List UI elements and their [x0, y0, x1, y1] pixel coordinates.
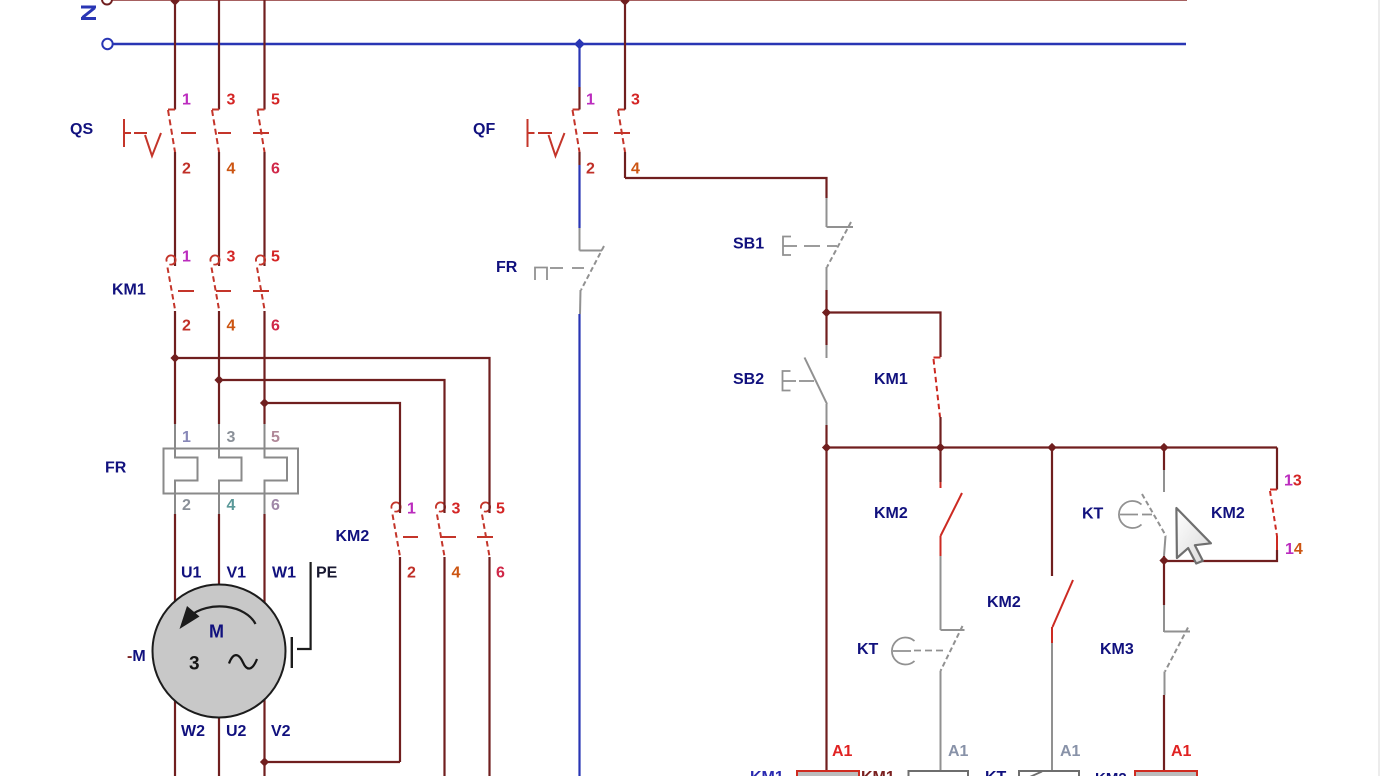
svg-text:3: 3	[631, 92, 640, 109]
svg-text:5: 5	[271, 92, 280, 109]
svg-text:3: 3	[452, 501, 461, 518]
svg-text:4: 4	[452, 565, 461, 582]
svg-text:A1: A1	[1060, 743, 1081, 760]
svg-text:14: 14	[1285, 541, 1303, 558]
svg-text:W2: W2	[181, 723, 205, 740]
svg-text:1: 1	[182, 429, 191, 446]
svg-text:KM1: KM1	[874, 371, 908, 388]
svg-text:SB1: SB1	[733, 236, 764, 253]
svg-text:KM1: KM1	[750, 769, 784, 776]
svg-text:KM2: KM2	[874, 505, 908, 522]
svg-text:3: 3	[227, 92, 236, 109]
svg-text:KM3: KM3	[1100, 641, 1134, 658]
svg-text:-M: -M	[127, 648, 146, 665]
svg-text:2: 2	[182, 497, 191, 514]
svg-text:6: 6	[271, 318, 280, 335]
svg-text:V1: V1	[227, 565, 247, 582]
svg-text:2: 2	[182, 318, 191, 335]
svg-text:KM1: KM1	[112, 282, 146, 299]
svg-text:13: 13	[1284, 473, 1302, 490]
svg-text:FR: FR	[105, 460, 127, 477]
svg-text:1: 1	[407, 501, 416, 518]
svg-text:3: 3	[189, 654, 200, 675]
svg-text:6: 6	[271, 497, 280, 514]
svg-text:KT: KT	[857, 641, 879, 658]
svg-text:U1: U1	[181, 565, 202, 582]
svg-text:5: 5	[271, 429, 280, 446]
svg-text:V2: V2	[271, 723, 291, 740]
svg-text:5: 5	[496, 501, 505, 518]
svg-text:4: 4	[227, 318, 236, 335]
svg-text:4: 4	[227, 497, 236, 514]
svg-text:KM2: KM2	[336, 528, 370, 545]
svg-text:SB2: SB2	[733, 371, 764, 388]
svg-text:1: 1	[182, 249, 191, 266]
svg-text:KM2: KM2	[1211, 505, 1245, 522]
svg-text:U2: U2	[226, 723, 247, 740]
svg-text:6: 6	[496, 565, 505, 582]
svg-text:FR: FR	[496, 259, 518, 276]
svg-text:KT: KT	[1082, 506, 1104, 523]
svg-text:KT: KT	[985, 769, 1007, 776]
svg-text:W1: W1	[272, 565, 296, 582]
svg-text:KM2: KM2	[987, 594, 1021, 611]
svg-text:4: 4	[227, 161, 236, 178]
svg-text:2: 2	[407, 565, 416, 582]
svg-text:QS: QS	[70, 121, 93, 138]
svg-text:2: 2	[586, 161, 595, 178]
svg-text:4: 4	[631, 161, 640, 178]
svg-text:KM1: KM1	[861, 769, 895, 776]
svg-text:5: 5	[271, 249, 280, 266]
svg-text:QF: QF	[473, 121, 495, 138]
svg-text:3: 3	[227, 249, 236, 266]
svg-text:3: 3	[227, 429, 236, 446]
svg-text:A1: A1	[1171, 743, 1192, 760]
svg-text:6: 6	[271, 161, 280, 178]
svg-text:M: M	[209, 622, 224, 642]
svg-text:2: 2	[182, 161, 191, 178]
svg-text:A1: A1	[832, 743, 853, 760]
svg-text:A1: A1	[948, 743, 969, 760]
svg-text:KM2: KM2	[1095, 770, 1127, 776]
svg-text:1: 1	[586, 92, 595, 109]
svg-text:PE: PE	[316, 565, 338, 582]
svg-text:1: 1	[182, 92, 191, 109]
